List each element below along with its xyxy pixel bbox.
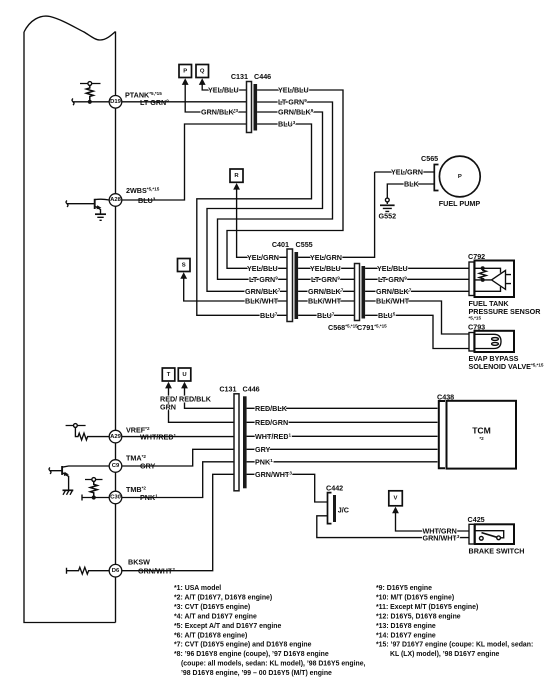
evap bypass solenoid valve box	[475, 331, 515, 352]
svg-text:YEL/BLU: YEL/BLU	[278, 86, 309, 95]
arrow into U	[181, 382, 188, 389]
svg-text:C791*5,*15: C791*5,*15	[357, 323, 387, 332]
label YEL/BLU (left of C131)	[208, 86, 239, 95]
label GRN/BLK (right of C555)	[308, 287, 344, 296]
wire D6 GRN/WHT row	[122, 474, 234, 570]
label YEL/BLU (right of C555)	[310, 264, 341, 273]
wire D19 LT GRN to C131	[122, 101, 247, 103]
label YEL/GRN (right of C555)	[310, 253, 342, 262]
fuel pump motor P	[439, 156, 480, 197]
label GRY left	[140, 462, 156, 471]
svg-text:BLK/WHT: BLK/WHT	[376, 297, 410, 306]
wire BLU right loop	[197, 124, 312, 315]
label C791	[357, 323, 387, 332]
label C401	[272, 240, 289, 249]
label LT GRN (right of C555)	[311, 275, 340, 284]
label GRN/BLK (right of C446)	[278, 108, 314, 117]
wire BLK/WHT C555-C568	[298, 300, 354, 302]
arrow into V	[392, 507, 399, 514]
connector box T	[162, 368, 175, 381]
label YEL/BLU (right of C791)	[377, 264, 408, 273]
svg-text:RED/BLK: RED/BLK	[255, 404, 288, 413]
sensor internal top wire	[475, 268, 501, 273]
svg-text:BLK/WHT: BLK/WHT	[308, 297, 342, 306]
label GRN/WHT left	[138, 566, 175, 575]
wire GRN/BLK C555-C568	[298, 290, 354, 292]
label GRN/BLK (right of C791)	[376, 287, 412, 296]
svg-text:C565: C565	[421, 154, 438, 163]
resistor at A29	[75, 427, 90, 440]
label GRY (right)	[255, 445, 271, 454]
svg-text:SOLENOID VALVE*5,*15: SOLENOID VALVE*5,*15	[469, 362, 544, 371]
wire Q YEL/BLU to C131	[202, 84, 246, 90]
ground G552	[380, 198, 395, 211]
svg-text:LT GRN9: LT GRN9	[378, 275, 407, 284]
label GRN/WHT (brake switch)	[423, 534, 460, 543]
svg-text:GRN/BLK7: GRN/BLK7	[376, 287, 412, 296]
connector C568	[355, 264, 360, 321]
svg-text:J/C: J/C	[338, 506, 349, 515]
svg-text:BRAKE SWITCH: BRAKE SWITCH	[469, 547, 525, 556]
brake switch box	[475, 524, 514, 544]
wire BLU C791 to valve	[365, 315, 469, 348]
label C446 (lower)	[243, 385, 260, 394]
svg-text:D19: D19	[110, 99, 122, 105]
svg-text:BLU7: BLU7	[317, 311, 335, 320]
wire BLK to ground	[387, 184, 434, 198]
fuel tank pressure sensor box	[475, 261, 515, 298]
svg-text:*5: Except A/T and D16Y7 engin: *5: Except A/T and D16Y7 engine	[174, 623, 282, 630]
svg-text:LT GRN9: LT GRN9	[278, 98, 307, 107]
label GRN/BLK (left of C401)	[245, 287, 281, 296]
svg-text:P: P	[183, 68, 187, 74]
label RED/BLK (U)	[179, 395, 212, 404]
terminal A28	[109, 194, 122, 207]
wire GRY to TCM	[247, 448, 438, 450]
wire BLU C555-C568	[298, 314, 354, 316]
wire R to YEL/GRN row	[237, 189, 287, 258]
label WHT/RED (right)	[255, 432, 292, 441]
wire YEL/BLU C791 to sensor	[365, 267, 469, 269]
label G552	[379, 212, 397, 221]
svg-text:*6: A/T (D16Y8 engine): *6: A/T (D16Y8 engine)	[174, 632, 247, 639]
label BLU (right of C446)	[278, 120, 296, 129]
connector box P	[179, 65, 192, 78]
svg-text:U: U	[182, 372, 186, 378]
svg-text:S: S	[182, 262, 186, 268]
arrow into Q	[199, 78, 206, 85]
wire LT GRN right loop	[218, 102, 333, 279]
terminal A29	[109, 430, 122, 443]
label YEL/GRN (left of C401)	[247, 253, 279, 262]
connector box U	[178, 368, 191, 381]
svg-text:YEL/GRN: YEL/GRN	[391, 168, 423, 177]
label PNK left	[140, 493, 158, 502]
connector box R	[230, 169, 243, 182]
wire C30 stub	[82, 495, 109, 501]
connector C791	[362, 266, 366, 319]
wire LT GRN C791 to sensor	[365, 278, 469, 280]
switch contact above C30	[85, 478, 103, 482]
svg-text:GRN/BLK*3: GRN/BLK*3	[201, 108, 239, 117]
transistor Q at C9	[49, 466, 109, 490]
svg-text:T: T	[167, 372, 171, 378]
label BLK/WHT (right of C555)	[308, 297, 342, 306]
wire YEL/BLU C555-C568	[298, 267, 354, 269]
arrow into S	[180, 272, 187, 279]
svg-text:*12: D16Y5, D16Y8 engine: *12: D16Y5, D16Y8 engine	[376, 614, 461, 621]
connector C401	[287, 249, 293, 322]
sensor internal bottom wire	[475, 287, 501, 292]
svg-text:*11: Except M/T (D16Y5 engine): *11: Except M/T (D16Y5 engine)	[376, 604, 478, 611]
connector C131 (lower)	[234, 394, 239, 491]
svg-text:C446: C446	[254, 72, 271, 81]
label EVAP BYPASS SOLENOID VALVE	[469, 354, 544, 371]
terminal C9	[109, 460, 122, 473]
label BLU (right of C555)	[317, 311, 335, 320]
svg-text:*10: M/T (D16Y5 engine): *10: M/T (D16Y5 engine)	[376, 595, 454, 602]
label C568	[328, 323, 358, 332]
svg-text:BLU3: BLU3	[278, 120, 296, 129]
wire LT GRN C555-C568	[298, 278, 354, 280]
label LT GRN	[140, 98, 169, 107]
svg-text:G552: G552	[379, 212, 397, 221]
svg-text:C442: C442	[326, 484, 343, 493]
svg-text:TCM: TCM	[472, 426, 491, 436]
wire YEL/GRN from C555 to fuel pump	[298, 172, 375, 257]
resistor (pull-up at D19)	[86, 85, 93, 101]
wire U RED/BLK to C131	[185, 388, 235, 409]
svg-text:*2: A/T (D16Y7, D16Y8 engine): *2: A/T (D16Y7, D16Y8 engine)	[174, 595, 272, 602]
label WHT/GRN	[423, 526, 457, 535]
connector C446 (lower)	[243, 396, 247, 488]
svg-text:P: P	[458, 174, 462, 180]
svg-text:C401: C401	[272, 240, 289, 249]
svg-text:GRN/BLK9: GRN/BLK9	[278, 108, 314, 117]
arrow into R	[233, 183, 240, 190]
sensor internal mid wire	[475, 279, 492, 281]
label TCM	[472, 426, 491, 442]
svg-text:C568*5,*15: C568*5,*15	[328, 323, 358, 332]
connector box S	[178, 259, 191, 272]
wire A29 to terminal	[91, 436, 110, 438]
label BLK	[404, 180, 420, 189]
connector C438 bracket	[439, 401, 445, 468]
svg-text:C131: C131	[219, 385, 236, 394]
label BLK/WHT (right of C791)	[376, 297, 410, 306]
wire GRN/BLK right loop	[207, 112, 323, 291]
connector C555	[295, 252, 299, 319]
label BLU (right of C791)	[378, 311, 396, 320]
connector C131 (upper)	[247, 82, 252, 133]
switch contact above D19 resistor	[80, 82, 101, 86]
svg-text:’98 D16Y8 engine, ’99 – 00 D16: ’98 D16Y8 engine, ’99 – 00 D16Y5 (M/T) e…	[181, 670, 332, 677]
label 2WBS	[126, 186, 160, 195]
label BLU (left of C401)	[260, 311, 278, 320]
svg-text:GRN/WHT3: GRN/WHT3	[255, 470, 292, 479]
label C565	[421, 154, 438, 163]
wire S to BLK/WHT row	[184, 278, 287, 301]
label RED/BLK (right)	[255, 404, 288, 413]
label GRN/BLK (left of C131)	[201, 108, 239, 117]
wire WHT/RED to TCM	[247, 435, 438, 437]
connector C792 bracket	[469, 262, 474, 296]
svg-text:C555: C555	[296, 240, 313, 249]
svg-text:RED/GRN: RED/GRN	[255, 418, 288, 427]
svg-text:C9: C9	[112, 463, 120, 469]
label YEL/GRN (fuel pump)	[391, 168, 423, 177]
ECM/PCM module block (torn-edge outline)	[24, 16, 116, 622]
svg-text:YEL/GRN: YEL/GRN	[247, 253, 279, 262]
svg-text:*7: CVT (D16Y5 engine) and D16: *7: CVT (D16Y5 engine) and D16Y8 engine	[174, 642, 312, 649]
svg-text:A29: A29	[110, 434, 122, 440]
label RED/GRN (right)	[255, 418, 288, 427]
wire RED/BLK to TCM	[247, 407, 438, 409]
svg-text:WHT/RED1: WHT/RED1	[255, 432, 292, 441]
label TMB	[126, 485, 146, 494]
svg-text:YEL/BLU: YEL/BLU	[208, 86, 239, 95]
connector C446 (upper)	[254, 84, 258, 131]
solenoid coil symbol	[475, 334, 502, 348]
junction connector C442	[328, 493, 337, 524]
label RED/GRN (T)	[160, 395, 177, 412]
svg-text:LT GRN9: LT GRN9	[140, 98, 169, 107]
footnotes left column	[174, 585, 366, 677]
wire YEL/GRN to fuel pump	[375, 171, 434, 173]
svg-text:*1: USA model: *1: USA model	[174, 585, 221, 592]
wire C9 GRY row	[122, 449, 234, 466]
svg-text:*2: *2	[479, 436, 484, 441]
junction dot at C30 wire	[92, 495, 96, 499]
svg-text:YEL/BLU: YEL/BLU	[310, 264, 341, 273]
wire A29 WHT/RED row	[122, 436, 234, 438]
svg-text:V: V	[394, 496, 398, 502]
svg-text:LT GRN9: LT GRN9	[249, 275, 278, 284]
ground (chassis) at C9 transistor	[63, 490, 74, 495]
sensor resistor junction dots	[481, 266, 485, 282]
svg-text:BLK: BLK	[404, 180, 420, 189]
svg-text:C446: C446	[243, 385, 260, 394]
svg-text:*14: D16Y7 engine: *14: D16Y7 engine	[376, 632, 436, 639]
wire PNK to TCM	[247, 461, 438, 463]
label BRAKE SWITCH	[469, 547, 525, 556]
label FUEL PUMP	[439, 199, 481, 208]
label TMA	[126, 454, 146, 463]
label BLU	[138, 196, 156, 205]
svg-text:LT GRN9: LT GRN9	[311, 275, 340, 284]
brake switch contacts	[475, 531, 504, 540]
svg-text:*3: CVT (D16Y5 engine): *3: CVT (D16Y5 engine)	[174, 604, 250, 611]
svg-text:C131: C131	[231, 72, 248, 81]
wire C442 to brake switch GRN/WHT	[317, 516, 469, 538]
ground (earth) at A28 transistor	[95, 214, 106, 220]
wire BLK/WHT C791 to valve	[365, 301, 469, 334]
label LT GRN (right of C446)	[278, 98, 307, 107]
label LT GRN (right of C791)	[378, 275, 407, 284]
arrow into T	[165, 382, 172, 389]
wire YEL/BLU right loop	[227, 90, 343, 268]
label YEL/BLU (left of C401)	[247, 264, 278, 273]
label YEL/BLU (right of C446)	[278, 86, 309, 95]
junction dot at D19 wire	[88, 100, 92, 104]
wire A28 BLU to connector	[122, 124, 247, 200]
sensor op-amp triangle	[492, 270, 506, 289]
connector C565 bracket	[434, 165, 438, 191]
svg-text:YEL/BLU: YEL/BLU	[377, 264, 408, 273]
svg-text:2WBS*5,*15: 2WBS*5,*15	[126, 186, 160, 195]
label VREF	[126, 426, 150, 435]
terminal D19	[109, 96, 122, 109]
label FUEL TANK PRESSURE SENSOR	[469, 299, 542, 320]
TCM box	[447, 401, 517, 469]
svg-text:D6: D6	[112, 568, 120, 574]
svg-text:GRN/BLK7: GRN/BLK7	[245, 287, 281, 296]
switch contact above A29	[66, 424, 86, 428]
wire GRN/BLK C791 to sensor	[365, 290, 469, 292]
label BKSW	[128, 558, 150, 567]
svg-text:C425: C425	[468, 515, 485, 524]
label PTANK	[125, 91, 162, 100]
label C792	[468, 252, 485, 261]
svg-text:A28: A28	[110, 197, 122, 203]
footnotes right column	[376, 585, 533, 658]
svg-text:*4: A/T and D16Y7 engine: *4: A/T and D16Y7 engine	[174, 614, 257, 621]
svg-text:*13: D16Y8 engine: *13: D16Y8 engine	[376, 623, 436, 630]
label C425	[468, 515, 485, 524]
svg-text:PNK1: PNK1	[255, 458, 273, 467]
wire V to brake switch WHT/GRN	[396, 513, 470, 532]
svg-text:YEL/BLU: YEL/BLU	[247, 264, 278, 273]
wire C30 PNK row	[122, 462, 234, 498]
label C793	[468, 323, 485, 332]
label C442	[326, 484, 343, 493]
connector C793 bracket	[469, 333, 474, 352]
svg-text:GRN/WHT3: GRN/WHT3	[423, 534, 460, 543]
arrow into P	[182, 78, 189, 85]
label C131 (upper)	[231, 72, 248, 81]
wire T RED/GRN to C131	[169, 388, 235, 423]
terminal D6	[109, 564, 122, 577]
svg-text:BKSW: BKSW	[128, 558, 150, 567]
svg-text:KL (LX) model), ’98 D16Y7 engi: KL (LX) model), ’98 D16Y7 engine	[390, 651, 500, 658]
sensor internal resistor	[479, 268, 486, 280]
svg-text:BLU5: BLU5	[378, 311, 396, 320]
svg-text:GRN: GRN	[160, 402, 176, 411]
resistor (pull-up at C30)	[90, 481, 97, 495]
label C555	[296, 240, 313, 249]
label LT GRN (left of C401)	[249, 275, 278, 284]
label C438	[437, 393, 454, 402]
svg-text:(coupe: all models, sedan: KL: (coupe: all models, sedan: KL model), ’9…	[181, 661, 366, 668]
terminal C30	[109, 491, 122, 504]
label PNK (right)	[255, 458, 273, 467]
svg-text:GRN/BLK7: GRN/BLK7	[308, 287, 344, 296]
svg-text:RED/BLK: RED/BLK	[179, 395, 212, 404]
connector C425 bracket	[469, 524, 474, 544]
svg-text:*9: D16Y5 engine: *9: D16Y5 engine	[376, 585, 432, 592]
svg-text:YEL/GRN: YEL/GRN	[310, 253, 342, 262]
svg-text:*15: ’97 D16Y7 engine (coupe:: *15: ’97 D16Y7 engine (coupe: KL model, …	[376, 642, 533, 649]
wire GRN/WHT to junction C442	[247, 474, 328, 502]
svg-text:BLU7: BLU7	[260, 311, 278, 320]
wire P GRN/BLK to C131	[185, 84, 246, 112]
svg-text:*8: ’96 D16Y8 engine (coupe),: *8: ’96 D16Y8 engine (coupe), ’97 D16Y8 …	[174, 651, 329, 658]
sensor output stubs	[506, 275, 512, 284]
label BLK/WHT (left of C401)	[245, 297, 279, 306]
wire RED/GRN to TCM	[247, 421, 438, 423]
resistor at D6	[67, 567, 110, 574]
svg-text:GRY: GRY	[255, 445, 271, 454]
wire D19 stub	[72, 99, 109, 106]
label GRN/WHT (right)	[255, 470, 292, 479]
svg-text:*5,*15: *5,*15	[469, 315, 482, 320]
svg-text:C30: C30	[110, 495, 122, 501]
svg-text:R: R	[234, 173, 239, 179]
svg-text:Q: Q	[200, 68, 205, 74]
connector box V	[389, 491, 403, 506]
label C446 (upper)	[254, 72, 271, 81]
svg-text:BLK/WHT: BLK/WHT	[245, 297, 279, 306]
label C131 (lower)	[219, 385, 236, 394]
connector box Q	[196, 65, 209, 78]
label WHT/RED left	[140, 433, 177, 442]
label J/C	[338, 506, 349, 515]
svg-text:FUEL PUMP: FUEL PUMP	[439, 199, 481, 208]
transistor Q at A28	[66, 199, 109, 214]
